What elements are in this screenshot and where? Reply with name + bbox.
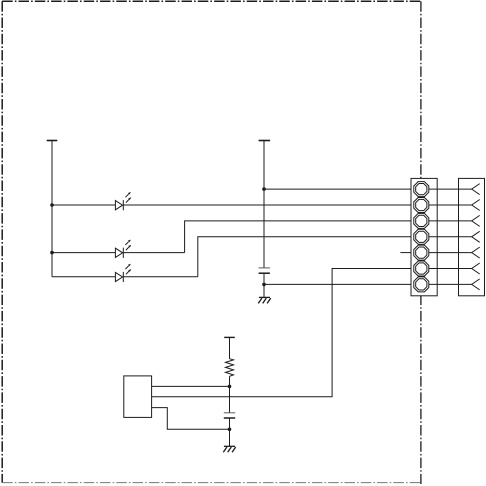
wire: bottom circuit riser to connector pin 6 [152, 269, 414, 397]
connector J1 pin 6 socket [414, 261, 429, 276]
resistor R1 [226, 359, 234, 377]
wire: rail2 to connector pin 1 [264, 188, 414, 190]
component U1 box [124, 376, 152, 418]
wire: middle supply rail vertical to C1 [263, 141, 265, 268]
wire: left supply rail vertical [51, 141, 53, 277]
harness arrow 1 [472, 184, 480, 195]
capacitor C1 [259, 268, 270, 273]
connector J1 body [411, 178, 437, 295]
capacitor C2 [224, 413, 235, 418]
wire: U1 pin to R1 node [152, 385, 230, 387]
wire: rail1 to D1 anode [52, 204, 115, 206]
wire: pin 4 to harness [429, 236, 472, 238]
wire: pin 3 to harness [429, 220, 472, 222]
wire: pin 1 to harness [429, 188, 472, 190]
wire: C1 bottom to ground [263, 273, 265, 297]
wire: stub to connector pin 5 [400, 252, 413, 254]
wire: D3 cathode to riser [123, 276, 198, 278]
connector J1 pin 7 socket [414, 277, 429, 292]
wire: rail1 corner to D3 anode [52, 276, 115, 278]
LED D3 [115, 264, 131, 282]
wire: riser D2 up and over to connector pin 3 [185, 221, 414, 253]
wire: C1 node to connector pin 7 [264, 283, 414, 285]
harness arrow 4 [472, 231, 480, 242]
wire: D1 cathode to connector pin 2 [123, 204, 414, 206]
wire: pin 7 to harness [429, 283, 472, 285]
node: junction rail2 / pin1 wire [262, 187, 266, 191]
connector J1 pin 1 socket [414, 182, 429, 197]
harness arrow 6 [472, 263, 480, 274]
supply rail terminal T-bar middle [259, 140, 271, 142]
wire: rail1 to D2 anode [52, 252, 115, 254]
node: junction rail1 / D2 anode [50, 251, 54, 255]
cable harness box [459, 178, 485, 295]
ground symbol bottom [223, 446, 235, 452]
node: junction rail1 / D1 anode [50, 203, 54, 207]
connector J1 pin 2 socket [414, 198, 429, 213]
node: junction C2 / U1 return [228, 428, 232, 432]
connector J1 pin 5 socket [414, 245, 429, 260]
supply rail terminal T-bar resistor [224, 336, 235, 338]
wire: C2 bottom to ground [229, 418, 231, 446]
harness arrow 5 [472, 247, 480, 258]
wire: pin 5 to harness [429, 252, 472, 254]
connector J1 pin 3 socket [414, 213, 429, 228]
wire: pin 2 to harness [429, 204, 472, 206]
wire: D2 cathode to riser [123, 252, 184, 254]
wire: U1 lower pin stepped to C2 node [152, 408, 230, 430]
wire: riser D3 up and over to connector pin 4 [198, 237, 414, 277]
ground symbol middle [258, 297, 270, 303]
LED D2 [115, 240, 131, 258]
wire: T-bar to R1 top [229, 337, 231, 358]
wire: R1 bottom through node to C2 [229, 376, 231, 413]
wire: pin 6 to harness [429, 268, 472, 270]
harness arrow 2 [472, 200, 480, 211]
harness arrow 3 [472, 215, 480, 226]
node: junction C1 / pin7 wire [262, 283, 266, 287]
supply rail terminal T-bar left [47, 140, 58, 142]
connector J1 pin 4 socket [414, 229, 429, 244]
harness arrow 7 [472, 279, 480, 290]
LED D1 [115, 192, 131, 210]
node: junction R1 / U1 / C2 [228, 385, 232, 389]
